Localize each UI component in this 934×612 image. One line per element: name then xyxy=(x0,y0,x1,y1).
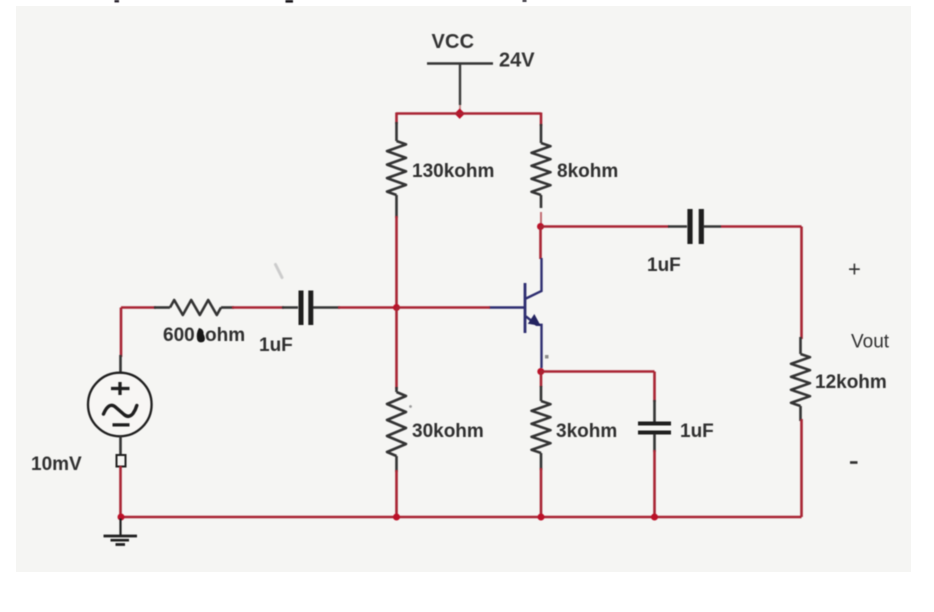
wire bypass cap column top (red) xyxy=(653,372,656,403)
wire 12k to ground rail (red) xyxy=(800,419,803,517)
wire collector row left (red) xyxy=(541,225,670,228)
wire base row left corner (red) xyxy=(121,306,156,309)
capacitor C3 1uF bypass top plate xyxy=(638,422,671,426)
wire 130k top lead (black) xyxy=(395,122,398,141)
wire 30k top lead (black) xyxy=(395,387,398,392)
wire input cap to base node (red) xyxy=(338,306,397,309)
svg-text:12kohm: 12kohm xyxy=(815,372,887,393)
node VCC (junction dot) xyxy=(454,108,464,118)
600ohm label ink-blot artifact xyxy=(197,328,205,342)
source V1 minus mark xyxy=(113,423,130,426)
node base xyxy=(393,304,400,311)
artifact gray speck near emitter xyxy=(545,355,549,359)
wire output cap left lead (black) xyxy=(668,225,687,228)
wire 600ohm left lead (black) xyxy=(154,306,170,309)
svg-text:+: + xyxy=(848,257,861,282)
wire bypass cap to ground rail (red) xyxy=(653,450,656,517)
wire 12k bottom lead (black) xyxy=(799,406,802,421)
wire 3k bottom lead (black) xyxy=(540,453,543,470)
wire emitter to 3k (red) xyxy=(540,372,543,388)
wire VCC stub (black) xyxy=(459,64,461,105)
source terminal rectangle xyxy=(117,455,126,467)
wire bypass cap bottom lead (black) xyxy=(653,434,656,452)
wire 130k top (red corner) xyxy=(395,113,398,125)
wire 3k top lead (black) xyxy=(540,386,543,401)
wire bypass cap top lead (black) xyxy=(653,400,656,422)
wire top rail (red) xyxy=(396,112,541,115)
ground symbol xyxy=(104,536,138,545)
cropped text artifact 3 (top edge) xyxy=(523,0,527,2)
cursor smudge artifact xyxy=(276,265,283,278)
wire output row to corner (red) xyxy=(721,225,802,228)
wire input cap right lead (black) xyxy=(282,306,340,309)
wire 12k top lead (black) xyxy=(799,337,802,354)
resistor R2 8kohm xyxy=(532,143,551,195)
wire ground rail (red) xyxy=(121,516,802,519)
wire 8k top lead (black) xyxy=(540,124,543,143)
wire emitter row (red) xyxy=(541,370,655,373)
wire output column top (red) xyxy=(800,227,803,340)
node ground-left xyxy=(118,514,125,521)
transistor Q1 emitter arrowhead xyxy=(529,315,541,326)
svg-text:1uF: 1uF xyxy=(259,335,293,356)
wire 8k bottom lead (black) xyxy=(540,195,543,208)
capacitor C2 1uF output right plate xyxy=(699,209,704,244)
svg-text:600: 600 xyxy=(163,325,195,346)
resistor R3 30kohm xyxy=(387,392,406,456)
svg-text:1uF: 1uF xyxy=(680,421,714,442)
svg-text:3kohm: 3kohm xyxy=(556,421,617,442)
transistor Q1 base bar (navy) xyxy=(524,283,527,333)
svg-text:30kohm: 30kohm xyxy=(412,421,484,442)
resistor R4 3kohm xyxy=(532,401,551,453)
wire base node to transistor (red) xyxy=(397,306,491,309)
source V1 sine wave xyxy=(104,405,137,416)
node bypass-ground xyxy=(651,514,658,521)
node emitter xyxy=(537,368,544,375)
svg-text:24V: 24V xyxy=(499,50,535,72)
wire 600ohm right lead (black) xyxy=(221,306,234,309)
capacitor C1 1uF input left plate xyxy=(299,291,304,326)
transistor Q1 collector lead (navy) xyxy=(526,258,542,299)
svg-text:VCC: VCC xyxy=(432,31,475,53)
capacitor C1 1uF input right plate xyxy=(308,291,313,326)
svg-text:ohm: ohm xyxy=(205,325,245,346)
wire source column top (red) xyxy=(120,308,123,358)
minus output label xyxy=(850,461,858,464)
wire 30k bottom lead (black) xyxy=(395,456,398,472)
wire source to ground node (red) xyxy=(119,466,122,517)
wire 130k to base node (red) xyxy=(395,216,398,307)
wire source top lead (black) xyxy=(119,355,122,374)
node 30k-ground xyxy=(393,514,400,521)
wire 8k to collector node (red, faded) xyxy=(540,212,542,227)
wire 30k to ground rail (red) xyxy=(395,470,398,517)
resistor R5 600ohm xyxy=(170,300,221,315)
source V1 plus mark xyxy=(111,382,130,395)
wire output cap right lead (black) xyxy=(703,225,721,228)
wire VCC stub fade xyxy=(459,105,461,111)
svg-text:8kohm: 8kohm xyxy=(557,161,618,182)
svg-text:Vout: Vout xyxy=(851,332,890,353)
wire 3k to ground rail (red) xyxy=(540,468,543,517)
wire source bottom lead (black) xyxy=(119,436,122,456)
node collector xyxy=(537,223,544,230)
svg-text:10mV: 10mV xyxy=(31,454,82,475)
capacitor C2 1uF output left plate xyxy=(687,209,692,244)
wire collector column (red) xyxy=(539,227,542,260)
source V1 circle xyxy=(88,373,152,437)
wire 30k top (red) xyxy=(395,308,398,390)
VCC power rail bar xyxy=(427,62,493,64)
ground stub (black) xyxy=(119,519,121,536)
svg-text:130kohm: 130kohm xyxy=(412,161,494,182)
resistor R6 12kohm xyxy=(791,354,810,406)
wire 130k bottom lead (black) xyxy=(395,195,398,218)
wire 8k top (red corner) xyxy=(540,113,543,127)
resistor R1 130kohm xyxy=(387,141,406,195)
capacitor C3 1uF bypass bottom plate xyxy=(638,431,671,435)
cropped text artifact 1 (top edge) xyxy=(115,0,120,2)
transistor Q1 base lead (navy) xyxy=(489,306,524,308)
wire to input cap (red) xyxy=(232,306,284,309)
transistor Q1 emitter lead (navy) xyxy=(526,317,542,369)
svg-text:1uF: 1uF xyxy=(647,255,681,276)
artifact gray dot near 30k xyxy=(409,405,412,408)
node 3k-ground xyxy=(538,514,545,521)
cropped text artifact 2 (top edge) xyxy=(286,0,294,3)
